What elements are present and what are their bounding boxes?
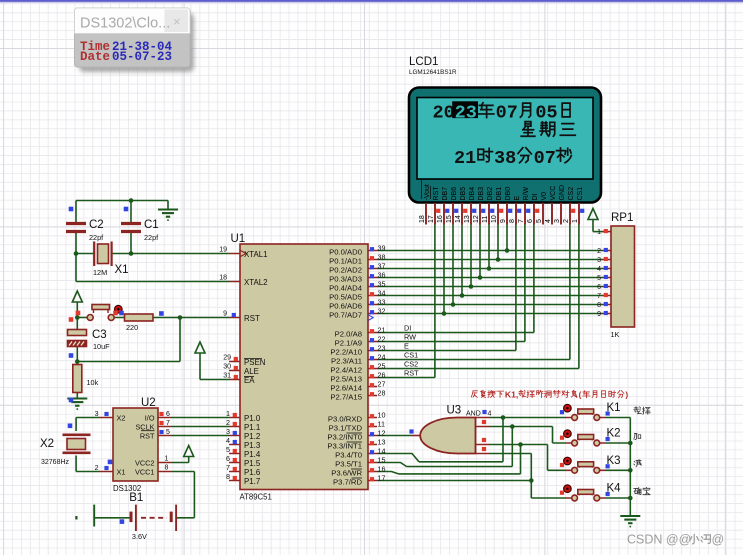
svg-text:K3: K3 (607, 455, 621, 467)
wire XTAL2 net C2-X1-U1.18 (76, 233, 229, 282)
svg-text:5: 5 (597, 275, 601, 282)
svg-text:P1.4: P1.4 (244, 450, 261, 459)
svg-text:AND: AND (466, 411, 481, 418)
svg-text:DB2: DB2 (487, 187, 494, 201)
wire U2 VCC1 to battery (95, 472, 194, 518)
svg-text:11: 11 (482, 216, 489, 223)
svg-text:EA: EA (244, 376, 255, 385)
svg-text:XTAL1: XTAL1 (244, 250, 268, 259)
wire U2 X2 crystal net (76, 418, 100, 472)
svg-text:X1: X1 (115, 264, 129, 276)
junctions DB to P0 bus (505, 248, 510, 253)
svg-text:07: 07 (496, 102, 518, 123)
resistor R 220 (125, 314, 154, 321)
svg-text:DB6: DB6 (451, 187, 458, 201)
svg-text:26: 26 (378, 370, 386, 379)
svg-text:3.6V: 3.6V (132, 532, 147, 541)
svg-text:P2.3/A11: P2.3/A11 (331, 356, 362, 365)
junction C1 top (129, 198, 134, 203)
U1 P0.7 bus entry marker (368, 315, 373, 321)
U1 left pin stubs (229, 254, 240, 481)
svg-text:15: 15 (378, 455, 386, 464)
svg-text:RST: RST (244, 314, 260, 323)
wire P0 bus rows to RP1 (377, 251, 603, 314)
svg-text:P0.4/AD4: P0.4/AD4 (329, 283, 363, 292)
power arrow EA net (195, 342, 205, 353)
wire EA net to U1.31 (200, 379, 229, 381)
wire E net U1.23 to LCD (377, 225, 516, 351)
svg-text:12: 12 (473, 215, 480, 223)
label K3 chinese (634, 460, 641, 467)
junction K2 net (510, 424, 515, 429)
svg-text:DB7: DB7 (442, 187, 449, 201)
svg-text:DB1: DB1 (496, 187, 503, 201)
svg-text:VCC1: VCC1 (135, 467, 154, 476)
wire RST net button-R220-U1.9-C3 (77, 318, 229, 399)
svg-text:(: ( (579, 390, 582, 399)
svg-text:21: 21 (378, 325, 386, 334)
svg-text:P3.6/WR: P3.6/WR (331, 468, 362, 477)
svg-text:28: 28 (378, 388, 386, 397)
svg-text:GND: GND (559, 185, 566, 201)
LCD pin stubs (426, 203, 579, 225)
svg-text:14: 14 (455, 215, 462, 223)
svg-text:Date: Date (80, 50, 110, 64)
svg-text:39: 39 (378, 243, 386, 252)
svg-text:3: 3 (95, 411, 99, 418)
svg-text:P0.1/AD1: P0.1/AD1 (329, 256, 362, 265)
svg-text:10: 10 (491, 215, 498, 223)
svg-text:RP1: RP1 (611, 212, 633, 224)
switch button K2 (566, 442, 606, 444)
svg-text:P0.0/AD0: P0.0/AD0 (329, 247, 362, 256)
svg-text:5: 5 (166, 429, 170, 436)
svg-text:5: 5 (226, 445, 230, 454)
junction X1 right (129, 251, 134, 256)
svg-text:7: 7 (597, 293, 601, 300)
svg-text:6: 6 (226, 454, 230, 463)
svg-text:12: 12 (378, 428, 386, 437)
svg-text:14: 14 (378, 446, 386, 455)
wire LCD DB verticals (444, 225, 507, 314)
svg-text:DS1302\Clo...: DS1302\Clo... (80, 16, 170, 32)
svg-text:7: 7 (518, 219, 525, 223)
svg-text:36: 36 (378, 270, 386, 279)
svg-text:LGM12641BS1R: LGM12641BS1R (409, 69, 457, 76)
svg-text:P2.2/A10: P2.2/A10 (330, 347, 362, 356)
switch button K3 (566, 469, 606, 471)
svg-text:P3.3/INT1: P3.3/INT1 (327, 441, 362, 450)
svg-text:RST: RST (404, 369, 419, 378)
svg-text:DB0: DB0 (505, 187, 512, 201)
svg-text:P3.7/RD: P3.7/RD (333, 477, 363, 486)
crystal X2 32768Hz (63, 433, 91, 436)
wire U3 output to U1.12 INT0 (377, 435, 412, 437)
wire net K2 add U1.15 (377, 427, 566, 467)
svg-text:2: 2 (226, 418, 230, 427)
crystal X1 (98, 244, 109, 264)
svg-text:AT89C51: AT89C51 (240, 493, 272, 502)
wire U2 I/O to U1 P1.0 (172, 417, 230, 419)
svg-text:): ) (625, 390, 628, 399)
svg-text:9: 9 (597, 311, 601, 318)
svg-text:35: 35 (378, 279, 386, 288)
svg-text:10: 10 (378, 410, 386, 419)
svg-text:29: 29 (223, 355, 231, 362)
svg-text:@: @ (712, 533, 725, 547)
svg-text:CS1: CS1 (404, 351, 418, 360)
svg-text:16: 16 (378, 464, 386, 473)
svg-text:P1.2: P1.2 (244, 432, 260, 441)
ground below 10k (67, 397, 87, 399)
junction K1 net (501, 415, 506, 420)
svg-text:PSEN: PSEN (244, 358, 266, 367)
svg-text:K1,: K1, (505, 390, 518, 400)
label K4 chinese (634, 488, 641, 495)
svg-text:P2.4/A12: P2.4/A12 (330, 365, 362, 374)
ground near C1 (158, 208, 178, 210)
svg-text:P1.6: P1.6 (244, 468, 261, 477)
svg-text:CS2: CS2 (404, 360, 418, 369)
svg-text:E: E (514, 196, 521, 201)
svg-text:1K: 1K (611, 330, 620, 339)
label K2 chinese (634, 433, 641, 439)
svg-text:15: 15 (446, 215, 453, 223)
svg-text:18: 18 (219, 275, 227, 282)
svg-text:4: 4 (545, 219, 552, 223)
svg-text:6: 6 (166, 411, 170, 418)
svg-text:P2.7/A15: P2.7/A15 (330, 392, 362, 401)
svg-text:VCC: VCC (550, 186, 557, 201)
U1 XTAL1 clock mark (241, 251, 247, 257)
svg-text:38: 38 (378, 252, 386, 261)
svg-text:38: 38 (494, 148, 516, 169)
svg-text:9: 9 (223, 311, 227, 318)
power arrow RST net (72, 291, 82, 302)
svg-text:9: 9 (500, 219, 507, 223)
svg-text:22pf: 22pf (144, 233, 159, 242)
svg-text:1: 1 (226, 409, 230, 418)
svg-text:B1: B1 (129, 492, 143, 504)
wire XTAL top net C2-C1-ground (76, 201, 168, 224)
svg-text:16: 16 (437, 215, 444, 223)
svg-text:33: 33 (378, 297, 386, 306)
junction rail K4 (628, 496, 633, 501)
wire XTAL1 net C1-X1-U1.19 (112, 233, 229, 254)
svg-text:C1: C1 (144, 219, 159, 231)
svg-text:17: 17 (378, 473, 386, 482)
svg-text:13: 13 (464, 215, 471, 223)
svg-text:P0.3/AD3: P0.3/AD3 (329, 274, 362, 283)
wire net K4 confirm U1.17 (377, 454, 566, 499)
svg-text:DB3: DB3 (478, 187, 485, 201)
svg-text:RST: RST (433, 186, 440, 201)
svg-text:C3: C3 (92, 329, 107, 341)
svg-text:37: 37 (378, 261, 386, 270)
svg-text:20: 20 (433, 102, 455, 123)
RP1 pin stubs (603, 232, 612, 314)
svg-text:1: 1 (597, 229, 601, 236)
svg-text:K1: K1 (607, 402, 621, 414)
wire net K1 select U1.14 (377, 418, 566, 462)
svg-text:K2: K2 (607, 428, 621, 440)
svg-text:X2: X2 (40, 438, 54, 450)
wire RW net U1.22 to LCD (377, 225, 525, 342)
svg-text:2: 2 (95, 465, 99, 472)
svg-text:K4: K4 (607, 483, 622, 495)
IC U1 AT89C51 (240, 244, 368, 490)
svg-text:P0.2/AD2: P0.2/AD2 (329, 265, 362, 274)
svg-text:2: 2 (563, 219, 570, 223)
svg-text:DB5: DB5 (460, 187, 467, 201)
svg-text:P1.3: P1.3 (244, 441, 261, 450)
svg-text:24: 24 (378, 352, 386, 361)
svg-text:1: 1 (572, 219, 579, 223)
LCD pin squares (436, 209, 440, 213)
svg-text:4: 4 (488, 411, 492, 418)
svg-text:8: 8 (597, 302, 601, 309)
junction X1 left (74, 251, 79, 256)
svg-text:10uF: 10uF (93, 342, 110, 351)
AND gate U3 mirrored (420, 418, 475, 454)
LCD text line2 weekday (521, 122, 535, 137)
capacitor C2 (66, 224, 86, 232)
svg-text:11: 11 (378, 419, 385, 428)
red instruction text (471, 391, 477, 398)
ground below button rail (620, 515, 640, 517)
svg-text:X2: X2 (117, 413, 126, 422)
wire DI net U1.21 to LCD (377, 225, 534, 333)
svg-text:18: 18 (419, 215, 426, 223)
svg-text:V0: V0 (541, 192, 548, 201)
junction K3 net (518, 442, 523, 447)
svg-text:05: 05 (535, 102, 557, 123)
capacitor C1 (121, 224, 141, 232)
svg-text:DI: DI (532, 193, 539, 200)
power arrow RP1 pin1 (588, 209, 598, 220)
svg-text:VCC2: VCC2 (135, 458, 154, 467)
svg-text:31: 31 (223, 373, 231, 380)
power arrow VCC2 net (184, 446, 194, 457)
svg-text:U2: U2 (141, 397, 156, 409)
svg-text:C2: C2 (89, 219, 104, 231)
svg-text:22: 22 (378, 334, 386, 343)
svg-text:P3.5/T1: P3.5/T1 (335, 459, 362, 468)
wire buttons right rail to ground (606, 418, 631, 517)
svg-text:07: 07 (534, 148, 556, 169)
svg-text:22pf: 22pf (89, 233, 104, 242)
svg-text:CS2: CS2 (568, 187, 575, 201)
wire RST-LCD net U1.26 to LCD (377, 225, 435, 378)
svg-text:P2.1/A9: P2.1/A9 (335, 338, 362, 347)
svg-text:DI: DI (404, 324, 411, 333)
svg-text:3: 3 (597, 257, 601, 264)
svg-text:8: 8 (226, 472, 230, 481)
svg-text:05-07-23: 05-07-23 (112, 50, 172, 64)
svg-text:8: 8 (165, 465, 169, 472)
junction RST button node (75, 315, 80, 320)
svg-text:3: 3 (554, 219, 561, 223)
svg-text:25: 25 (378, 361, 386, 370)
svg-text:I/O: I/O (145, 413, 155, 422)
svg-text:3: 3 (226, 427, 230, 436)
svg-text:7: 7 (226, 463, 230, 472)
LCD screen (417, 98, 593, 180)
svg-text:4: 4 (597, 266, 601, 273)
svg-text:4: 4 (226, 436, 230, 445)
svg-text:P1.0: P1.0 (244, 414, 261, 423)
junction rail K2 (628, 441, 633, 446)
svg-text:P2.6/A14: P2.6/A14 (330, 383, 362, 392)
svg-text:U1: U1 (231, 233, 246, 245)
IC U2 DS1302 (113, 408, 158, 481)
svg-text:5: 5 (536, 219, 543, 223)
U3 output stub (412, 435, 421, 437)
junction C3 bottom node (75, 359, 80, 364)
svg-text:-Vout: -Vout (424, 184, 431, 200)
svg-text:CS1: CS1 (577, 187, 584, 201)
svg-text:34: 34 (378, 288, 386, 297)
svg-text:U3: U3 (447, 405, 462, 417)
wire RP1 pin1 to power (593, 231, 603, 233)
wire CS1 net U1.24 to LCD (377, 225, 570, 360)
svg-text:21: 21 (454, 148, 476, 169)
switch reset button (87, 315, 93, 321)
svg-text:P3.1/TXD: P3.1/TXD (329, 423, 363, 432)
wire U2 VCC2 to power (172, 462, 189, 464)
svg-text:8: 8 (509, 219, 516, 223)
svg-text:P0.7/AD7: P0.7/AD7 (329, 310, 362, 319)
svg-text:32768Hz: 32768Hz (41, 459, 70, 466)
svg-text:P3.2/INT0: P3.2/INT0 (327, 432, 362, 441)
switch button K4 (566, 497, 606, 499)
svg-text:RW: RW (404, 333, 416, 342)
U3 input stubs (476, 418, 490, 454)
svg-text:23: 23 (378, 343, 386, 352)
resistor R 10k (73, 365, 82, 393)
junction R220 right node (178, 315, 183, 320)
svg-text:13: 13 (378, 437, 386, 446)
svg-text:P2.0/A8: P2.0/A8 (335, 329, 362, 338)
svg-text:27: 27 (378, 379, 386, 388)
top window border bar (0, 0, 743, 2)
svg-text:P3.0/RXD: P3.0/RXD (328, 414, 363, 423)
svg-text:P0.6/AD6: P0.6/AD6 (329, 301, 362, 310)
svg-text:P3.4/T0: P3.4/T0 (335, 450, 362, 459)
svg-text:7: 7 (166, 420, 170, 427)
svg-text:P1.1: P1.1 (244, 423, 260, 432)
capacitor C3 electrolytic (68, 330, 87, 336)
junction K4 net (529, 478, 534, 483)
svg-text:10k: 10k (87, 378, 99, 387)
svg-text:R/W: R/W (523, 187, 530, 201)
wire CS2 net U1.25 to LCD (377, 225, 579, 369)
svg-text:220: 220 (126, 323, 138, 332)
switch button K1 (566, 417, 606, 419)
junction rail K3 (628, 468, 633, 473)
svg-text:P0.5/AD5: P0.5/AD5 (329, 292, 362, 301)
svg-text:DB4: DB4 (469, 187, 476, 201)
svg-text:23: 23 (455, 102, 477, 123)
svg-text:6: 6 (597, 284, 601, 291)
wire U2 SCLK to U1 P1.1 (172, 426, 230, 428)
U1 right pin stubs (368, 251, 377, 481)
wire net K3 minus U1.16 (377, 445, 566, 474)
popup window DS1302 clock (79, 13, 194, 72)
wire U2 RST to U1 P1.2 (172, 435, 230, 437)
label K1 chinese (634, 407, 642, 414)
svg-text:SCLK: SCLK (135, 422, 154, 431)
svg-text:32: 32 (378, 306, 386, 315)
svg-text:30: 30 (223, 364, 231, 371)
svg-text:6: 6 (527, 219, 534, 223)
svg-text:P1.7: P1.7 (244, 477, 260, 486)
svg-text:XTAL2: XTAL2 (244, 278, 268, 287)
svg-text:12M: 12M (93, 268, 107, 277)
resistor pack RP1 1K (611, 226, 635, 327)
svg-text:ALE: ALE (244, 367, 259, 376)
svg-text:P1.5: P1.5 (244, 459, 261, 468)
svg-text:E: E (404, 342, 409, 351)
svg-text:RST: RST (140, 431, 155, 440)
svg-text:19: 19 (219, 247, 227, 254)
svg-text:2: 2 (597, 248, 601, 255)
svg-text:CSDN @@: CSDN @@ (627, 533, 691, 547)
svg-text:×: × (173, 14, 181, 29)
svg-text:X1: X1 (117, 467, 126, 476)
LCD LCD1 body (409, 88, 601, 203)
svg-text:1: 1 (165, 456, 169, 463)
svg-text:P2.5/A13: P2.5/A13 (330, 374, 362, 383)
svg-text:LCD1: LCD1 (409, 56, 438, 68)
svg-text:17: 17 (428, 215, 435, 223)
